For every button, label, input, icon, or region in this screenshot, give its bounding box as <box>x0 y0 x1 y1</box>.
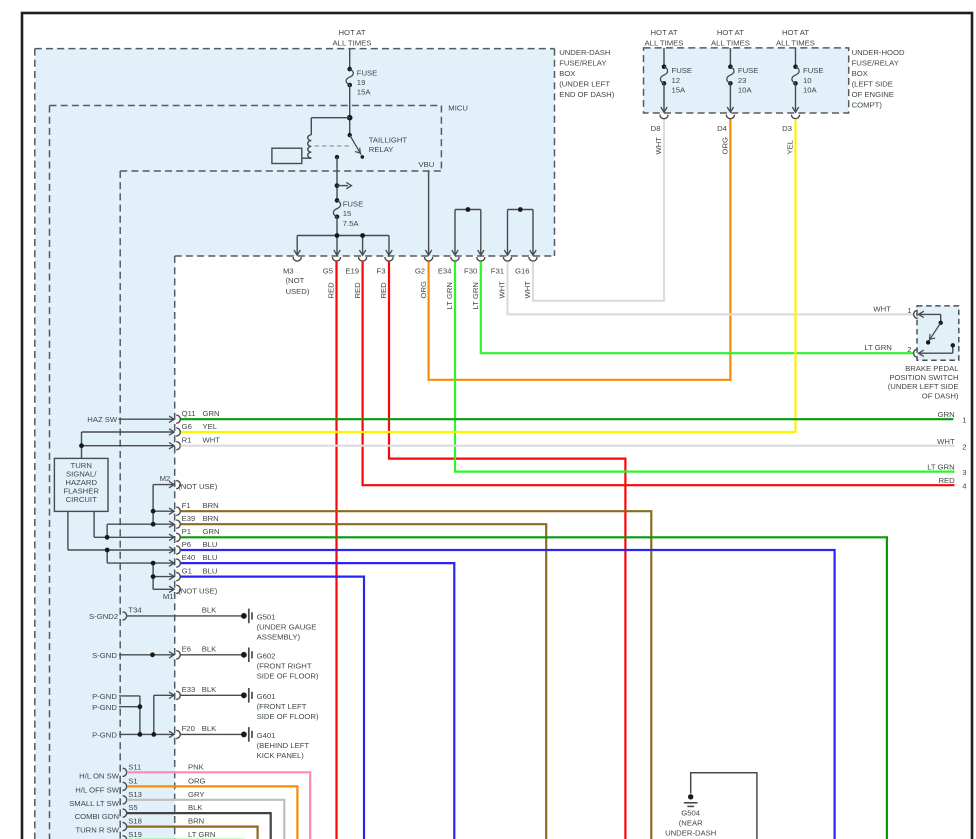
svg-text:G1: G1 <box>182 566 192 575</box>
wire fuse 19 to relay <box>349 85 351 135</box>
svg-text:BLU: BLU <box>203 553 218 562</box>
svg-text:WHT: WHT <box>654 137 663 155</box>
svg-text:G5: G5 <box>323 266 333 275</box>
wire F3 RED runs to lower right <box>389 262 625 839</box>
svg-text:ALL TIMES: ALL TIMES <box>645 38 684 47</box>
svg-text:15A: 15A <box>672 85 687 94</box>
svg-text:F1: F1 <box>182 501 191 510</box>
svg-text:RED: RED <box>938 476 955 485</box>
svg-text:PNK: PNK <box>188 762 205 771</box>
svg-text:UNDER-DASH: UNDER-DASH <box>665 828 716 837</box>
svg-text:WHT: WHT <box>203 436 221 445</box>
connector pin S1 <box>123 777 206 791</box>
svg-text:P-GND: P-GND <box>92 692 117 701</box>
node bus junction G5 <box>335 233 340 238</box>
svg-text:(NOT: (NOT <box>286 276 305 285</box>
svg-text:G601: G601 <box>257 692 276 701</box>
wire HAZ SW to Q11 <box>119 416 175 422</box>
node junction at relay input <box>347 115 353 121</box>
node junction E39 <box>151 522 156 527</box>
svg-text:P-GND: P-GND <box>92 731 117 740</box>
svg-text:GRY: GRY <box>188 790 205 799</box>
connector pin R1 <box>176 436 220 450</box>
svg-text:LT GRN: LT GRN <box>188 830 215 839</box>
svg-text:E33: E33 <box>182 685 196 694</box>
wire F1 BRN <box>181 511 652 839</box>
svg-text:ORG: ORG <box>188 777 206 786</box>
svg-text:HOT AT: HOT AT <box>717 28 744 37</box>
svg-text:G16: G16 <box>515 266 530 275</box>
svg-text:(FRONT LEFT: (FRONT LEFT <box>257 702 307 711</box>
connector pin F31 <box>491 257 512 299</box>
svg-text:D8: D8 <box>651 124 661 133</box>
svg-text:S13: S13 <box>128 790 142 799</box>
node junction F1 <box>151 509 156 514</box>
connector pin E19 <box>345 257 366 299</box>
connector pin E39 <box>176 514 219 528</box>
svg-text:BLU: BLU <box>203 540 218 549</box>
svg-text:S-GND: S-GND <box>92 651 117 660</box>
ground G601 <box>241 688 319 721</box>
svg-text:ALL TIMES: ALL TIMES <box>776 38 815 47</box>
under-dash fuse/relay box shaded region <box>35 49 555 839</box>
svg-text:BRN: BRN <box>203 514 219 523</box>
fuse 12 15A <box>660 48 692 95</box>
svg-text:G401: G401 <box>257 731 276 740</box>
connector pin P6 <box>176 540 217 554</box>
svg-text:F31: F31 <box>491 266 504 275</box>
svg-text:BLU: BLU <box>203 566 218 575</box>
svg-text:BLK: BLK <box>188 803 203 812</box>
svg-text:LT GRN: LT GRN <box>927 463 954 472</box>
svg-text:15A: 15A <box>357 88 372 97</box>
wire jumper F31-G16 <box>504 210 536 256</box>
svg-text:M2: M2 <box>160 474 171 483</box>
connector pin D8 <box>651 115 668 155</box>
ground G501 <box>241 609 316 642</box>
fuse 15 7.5A <box>333 198 363 228</box>
connector pin Q11 <box>176 409 219 423</box>
svg-text:E6: E6 <box>182 645 191 654</box>
svg-text:BLK: BLK <box>202 685 217 694</box>
brake pedal position switch dashed outline <box>917 306 959 360</box>
svg-text:HOT AT: HOT AT <box>338 28 365 37</box>
svg-text:E39: E39 <box>182 514 196 523</box>
node jumper junction 2 <box>518 207 523 212</box>
svg-text:D4: D4 <box>717 124 728 133</box>
wire E19 RED to right edge (RED 4) <box>363 262 955 486</box>
svg-text:FUSE: FUSE <box>672 66 693 75</box>
svg-text:4: 4 <box>962 482 967 491</box>
svg-text:G501: G501 <box>257 613 276 622</box>
svg-text:S18: S18 <box>128 817 142 826</box>
connector pin F20 <box>176 724 217 738</box>
svg-text:ALL TIMES: ALL TIMES <box>333 38 372 47</box>
svg-text:WHT: WHT <box>498 281 507 299</box>
svg-text:S19: S19 <box>128 830 142 839</box>
node jumper junction <box>466 207 471 212</box>
connector pin S19 <box>123 830 216 839</box>
connector pin M1 <box>163 585 218 601</box>
relay actuation dashed link <box>315 145 353 147</box>
svg-text:SIDE OF FLOOR): SIDE OF FLOOR) <box>257 712 319 721</box>
ground G602 <box>241 648 319 681</box>
svg-text:E19: E19 <box>345 266 359 275</box>
wire relay output down <box>336 157 338 200</box>
label RED tail 4 <box>938 476 967 491</box>
wire S1 ORG <box>127 786 298 839</box>
svg-text:YEL: YEL <box>203 422 218 431</box>
connector pin G1 <box>176 566 217 580</box>
wire P6 BLU <box>181 550 835 839</box>
wire E40 BLU <box>181 563 455 839</box>
svg-text:LT GRN: LT GRN <box>864 343 891 352</box>
under-dash fuse/relay box dashed outline <box>35 49 555 839</box>
svg-text:HOT AT: HOT AT <box>782 28 809 37</box>
svg-text:BRAKE PEDAL: BRAKE PEDAL <box>905 364 959 373</box>
svg-text:SMALL LT SW: SMALL LT SW <box>69 799 120 808</box>
svg-text:WHT: WHT <box>937 437 955 446</box>
svg-text:12: 12 <box>672 76 681 85</box>
svg-text:P-GND: P-GND <box>92 703 117 712</box>
svg-text:P6: P6 <box>182 540 191 549</box>
wire jumper E34-F30 <box>452 210 484 256</box>
node junction G1 <box>151 574 156 579</box>
svg-text:BOX: BOX <box>559 69 575 78</box>
connector pin G5 <box>323 257 341 299</box>
connector pin G2 <box>415 257 433 299</box>
svg-text:BLK: BLK <box>202 724 217 733</box>
node junction P1 <box>105 535 110 540</box>
wire G5 RED vertical <box>335 262 337 839</box>
under-hood fuse/relay box shaded region <box>644 48 849 113</box>
svg-text:F30: F30 <box>464 266 477 275</box>
connector pin S18 <box>123 817 205 831</box>
node bus junction E19 <box>360 233 365 238</box>
svg-text:BLK: BLK <box>202 645 217 654</box>
wire fuse 12 to connector D8 <box>661 83 667 112</box>
connector pin F3 <box>377 257 394 299</box>
connector pin T34 <box>123 606 218 620</box>
wire fuse 15 to distribution bus <box>336 217 338 236</box>
node HOT AT ALL TIMES (fuse 23 feed) <box>711 28 750 47</box>
node junction R1 feed <box>79 443 84 448</box>
svg-text:19: 19 <box>357 78 366 87</box>
svg-text:F3: F3 <box>377 266 386 275</box>
svg-text:BRN: BRN <box>188 817 204 826</box>
connector pin D3 <box>782 115 799 155</box>
svg-text:10A: 10A <box>803 85 818 94</box>
svg-text:E34: E34 <box>438 266 452 275</box>
svg-text:WHT: WHT <box>873 305 891 314</box>
wire E39 BRN <box>181 524 547 839</box>
connector pin S5 <box>123 803 204 817</box>
svg-text:Q11: Q11 <box>182 409 196 418</box>
svg-text:(NOT USE): (NOT USE) <box>178 587 218 596</box>
wire D3 YEL to G6 <box>181 119 796 432</box>
svg-text:S11: S11 <box>128 762 141 771</box>
svg-text:GRN: GRN <box>938 410 955 419</box>
connector pin F30 <box>464 257 485 310</box>
svg-text:3: 3 <box>962 468 966 477</box>
connector pin S11 <box>123 762 205 776</box>
svg-text:GRN: GRN <box>203 527 220 536</box>
svg-text:OF DASH): OF DASH) <box>922 391 959 400</box>
svg-text:HAZ SW: HAZ SW <box>87 415 118 424</box>
node branch with arrow <box>335 182 352 188</box>
svg-text:(NOT USE): (NOT USE) <box>178 482 218 491</box>
svg-text:2: 2 <box>907 345 911 354</box>
svg-text:RED: RED <box>379 282 388 299</box>
wire T34 BLK to G501 <box>127 615 241 617</box>
svg-text:S-GND2: S-GND2 <box>89 612 118 621</box>
connector pin M3 <box>283 257 301 275</box>
node junction E33 branch <box>151 732 156 737</box>
under-hood fuse/relay box label <box>852 48 905 110</box>
wire S18 BRN <box>127 827 258 839</box>
svg-text:R1: R1 <box>182 436 192 445</box>
taillight relay label <box>369 136 408 155</box>
distribution bus wire <box>294 236 392 256</box>
wire F20 BLK to G401 <box>181 733 242 735</box>
svg-text:FUSE: FUSE <box>357 69 378 78</box>
connector pin G16 <box>515 257 537 299</box>
node dot on S-GND wire <box>150 652 155 657</box>
svg-text:(UNDER LEFT SIDE: (UNDER LEFT SIDE <box>888 382 959 391</box>
connector pin G6 <box>176 422 218 436</box>
svg-text:(UNDER GAUGE: (UNDER GAUGE <box>257 623 317 632</box>
wire R1 WHT to right edge (WHT 2) <box>181 445 955 447</box>
svg-text:POSITION SWITCH: POSITION SWITCH <box>889 373 958 382</box>
svg-text:RELAY: RELAY <box>369 145 394 154</box>
svg-text:S1: S1 <box>128 777 137 786</box>
wire G16 WHT to D8 <box>533 118 664 301</box>
wire flasher output to P1/E39/F1/M2 <box>94 481 174 540</box>
under-hood fuse/relay box dashed outline <box>644 48 849 113</box>
svg-text:LT GRN: LT GRN <box>471 282 480 309</box>
svg-text:TAILLIGHT: TAILLIGHT <box>369 136 408 145</box>
wire VBU to G2 <box>425 171 431 255</box>
svg-text:ALL TIMES: ALL TIMES <box>711 38 750 47</box>
svg-text:MICU: MICU <box>448 104 468 113</box>
connector pin E6 <box>176 645 217 659</box>
wire Q11 GRN to right edge (GRN 1) <box>181 418 954 420</box>
fuse 10 10A <box>792 48 824 95</box>
brake pedal switch internals <box>918 311 955 356</box>
svg-text:BOX: BOX <box>852 69 868 78</box>
svg-text:TURN R SW: TURN R SW <box>75 826 119 835</box>
fuse 19 15A <box>346 67 377 97</box>
svg-text:G504: G504 <box>681 808 701 817</box>
node HOT AT ALL TIMES (fuse 19 feed) <box>333 28 372 47</box>
wire coil to driver box <box>302 157 312 159</box>
wire P1 GRN <box>181 537 887 839</box>
wire fuse 10 to connector D3 <box>792 83 798 112</box>
svg-text:F20: F20 <box>182 724 195 733</box>
svg-text:BRN: BRN <box>203 501 219 510</box>
brake pedal switch pin 1 <box>907 306 917 318</box>
wire S-GND to E6 <box>119 652 174 658</box>
svg-text:1: 1 <box>907 306 911 315</box>
connector pin M2 <box>160 474 218 491</box>
svg-text:VBU: VBU <box>418 160 434 169</box>
svg-text:23: 23 <box>738 76 747 85</box>
svg-text:S5: S5 <box>128 803 137 812</box>
connector pin D4 <box>717 115 734 155</box>
wire S13 GRY <box>127 800 284 839</box>
svg-text:2: 2 <box>962 442 966 451</box>
svg-text:ASSEMBLY): ASSEMBLY) <box>257 633 301 642</box>
wire E33 BLK to G601 <box>181 694 242 696</box>
wire from HOT AT ALL TIMES to fuse 19 <box>349 49 351 70</box>
relay driver box <box>272 148 302 163</box>
wire P-GND tie <box>119 692 174 738</box>
svg-text:LT GRN: LT GRN <box>445 282 454 309</box>
label WHT tail 2 <box>937 437 966 452</box>
svg-text:COMPT): COMPT) <box>852 100 883 109</box>
svg-text:D3: D3 <box>782 124 792 133</box>
svg-text:H/L OFF SW: H/L OFF SW <box>75 785 119 794</box>
node HOT AT ALL TIMES (fuse 10 feed) <box>776 28 815 47</box>
svg-text:GRN: GRN <box>203 409 220 418</box>
wire G6 and R1 to flasher circuit <box>82 429 175 459</box>
svg-text:FUSE/RELAY: FUSE/RELAY <box>852 58 899 67</box>
svg-text:P1: P1 <box>182 527 191 536</box>
svg-text:G602: G602 <box>257 652 276 661</box>
svg-text:ORG: ORG <box>419 281 428 299</box>
wire to G504 <box>691 773 757 839</box>
label M3 not used <box>286 276 310 296</box>
taillight relay switch <box>335 133 364 159</box>
connector pin E40 <box>176 553 217 567</box>
wire E6 BLK to G602 <box>181 654 242 656</box>
svg-text:ORG: ORG <box>721 137 730 155</box>
node junction P-GND 2 <box>138 704 143 709</box>
svg-text:1: 1 <box>962 416 966 425</box>
ground G401 <box>241 727 309 760</box>
svg-text:H/L ON SW: H/L ON SW <box>79 771 120 780</box>
svg-text:15: 15 <box>343 209 352 218</box>
turn signal hazard flasher circuit box <box>54 458 108 511</box>
wire F31 WHT to brake pedal switch <box>508 262 914 315</box>
svg-text:E40: E40 <box>182 553 196 562</box>
wire flasher output to P6/E40/G1/M1 <box>68 511 174 592</box>
svg-text:END OF DASH): END OF DASH) <box>559 90 615 99</box>
svg-text:WHT: WHT <box>523 281 532 299</box>
taillight relay coil feed wire <box>311 118 349 135</box>
node junction P6 <box>105 548 110 553</box>
under-dash fuse/relay box label <box>559 48 615 99</box>
svg-text:(BEHIND LEFT: (BEHIND LEFT <box>257 741 310 750</box>
svg-text:YEL: YEL <box>786 139 795 154</box>
brake pedal position switch label <box>888 364 959 400</box>
ground G504 <box>665 794 716 837</box>
svg-text:G2: G2 <box>415 266 425 275</box>
MICU dashed outline <box>50 106 442 839</box>
brake pedal position switch shaded region <box>917 306 959 360</box>
svg-text:RED: RED <box>327 282 336 299</box>
connector pin E34 <box>438 257 459 310</box>
svg-text:FUSE: FUSE <box>803 66 824 75</box>
wire fuse 23 to connector D4 <box>727 83 733 112</box>
svg-text:FUSE: FUSE <box>343 200 364 209</box>
connector pin F1 <box>176 501 219 515</box>
svg-text:OF ENGINE: OF ENGINE <box>852 90 894 99</box>
svg-text:T34: T34 <box>128 606 142 615</box>
node HOT AT ALL TIMES (fuse 12 feed) <box>645 28 684 47</box>
svg-text:FUSE: FUSE <box>738 66 759 75</box>
svg-text:UNDER-HOOD: UNDER-HOOD <box>852 48 905 57</box>
wire F30 LT GRN to brake pedal switch <box>481 262 914 354</box>
svg-text:FUSE/RELAY: FUSE/RELAY <box>559 58 606 67</box>
connector pin E33 <box>176 685 217 699</box>
svg-text:10A: 10A <box>738 85 753 94</box>
svg-text:UNDER-DASH: UNDER-DASH <box>559 48 610 57</box>
svg-text:COMBI GDN: COMBI GDN <box>75 812 119 821</box>
wire G1 BLU <box>181 577 365 839</box>
svg-text:M3: M3 <box>283 266 294 275</box>
svg-text:G6: G6 <box>182 422 192 431</box>
svg-text:(UNDER LEFT: (UNDER LEFT <box>559 79 610 88</box>
brake pedal switch pin 2 <box>907 345 917 357</box>
taillight relay coil <box>308 135 312 158</box>
label LT GRN tail 3 <box>927 463 966 478</box>
node junction E40 <box>151 561 156 566</box>
connector pin P1 <box>176 527 219 541</box>
label GRN tail 1 <box>938 410 967 424</box>
svg-text:KICK PANEL): KICK PANEL) <box>257 751 305 760</box>
node junction P-GND 3 <box>138 732 143 737</box>
svg-text:10: 10 <box>803 76 812 85</box>
wire S11 PNK <box>127 772 310 839</box>
svg-text:RED: RED <box>353 282 362 299</box>
svg-text:(LEFT SIDE: (LEFT SIDE <box>852 79 893 88</box>
svg-text:7.5A: 7.5A <box>343 219 360 228</box>
svg-text:CIRCUIT: CIRCUIT <box>66 495 97 504</box>
connector pin S13 <box>123 790 205 804</box>
svg-text:SIDE OF FLOOR): SIDE OF FLOOR) <box>257 672 319 681</box>
svg-text:USED): USED) <box>286 287 310 296</box>
svg-text:BLK: BLK <box>202 606 217 615</box>
wire G2 ORG to D4 <box>429 118 731 380</box>
wire E34 LT GRN to right edge (LT GRN 3) <box>455 262 955 472</box>
svg-text:(FRONT RIGHT: (FRONT RIGHT <box>257 662 312 671</box>
wire S5 BLK <box>127 813 271 839</box>
svg-text:M1: M1 <box>163 592 174 601</box>
svg-text:HOT AT: HOT AT <box>650 28 677 37</box>
wire S19 LT GRN <box>127 838 245 839</box>
svg-text:(NEAR: (NEAR <box>679 818 703 827</box>
fuse 23 10A <box>727 48 759 95</box>
